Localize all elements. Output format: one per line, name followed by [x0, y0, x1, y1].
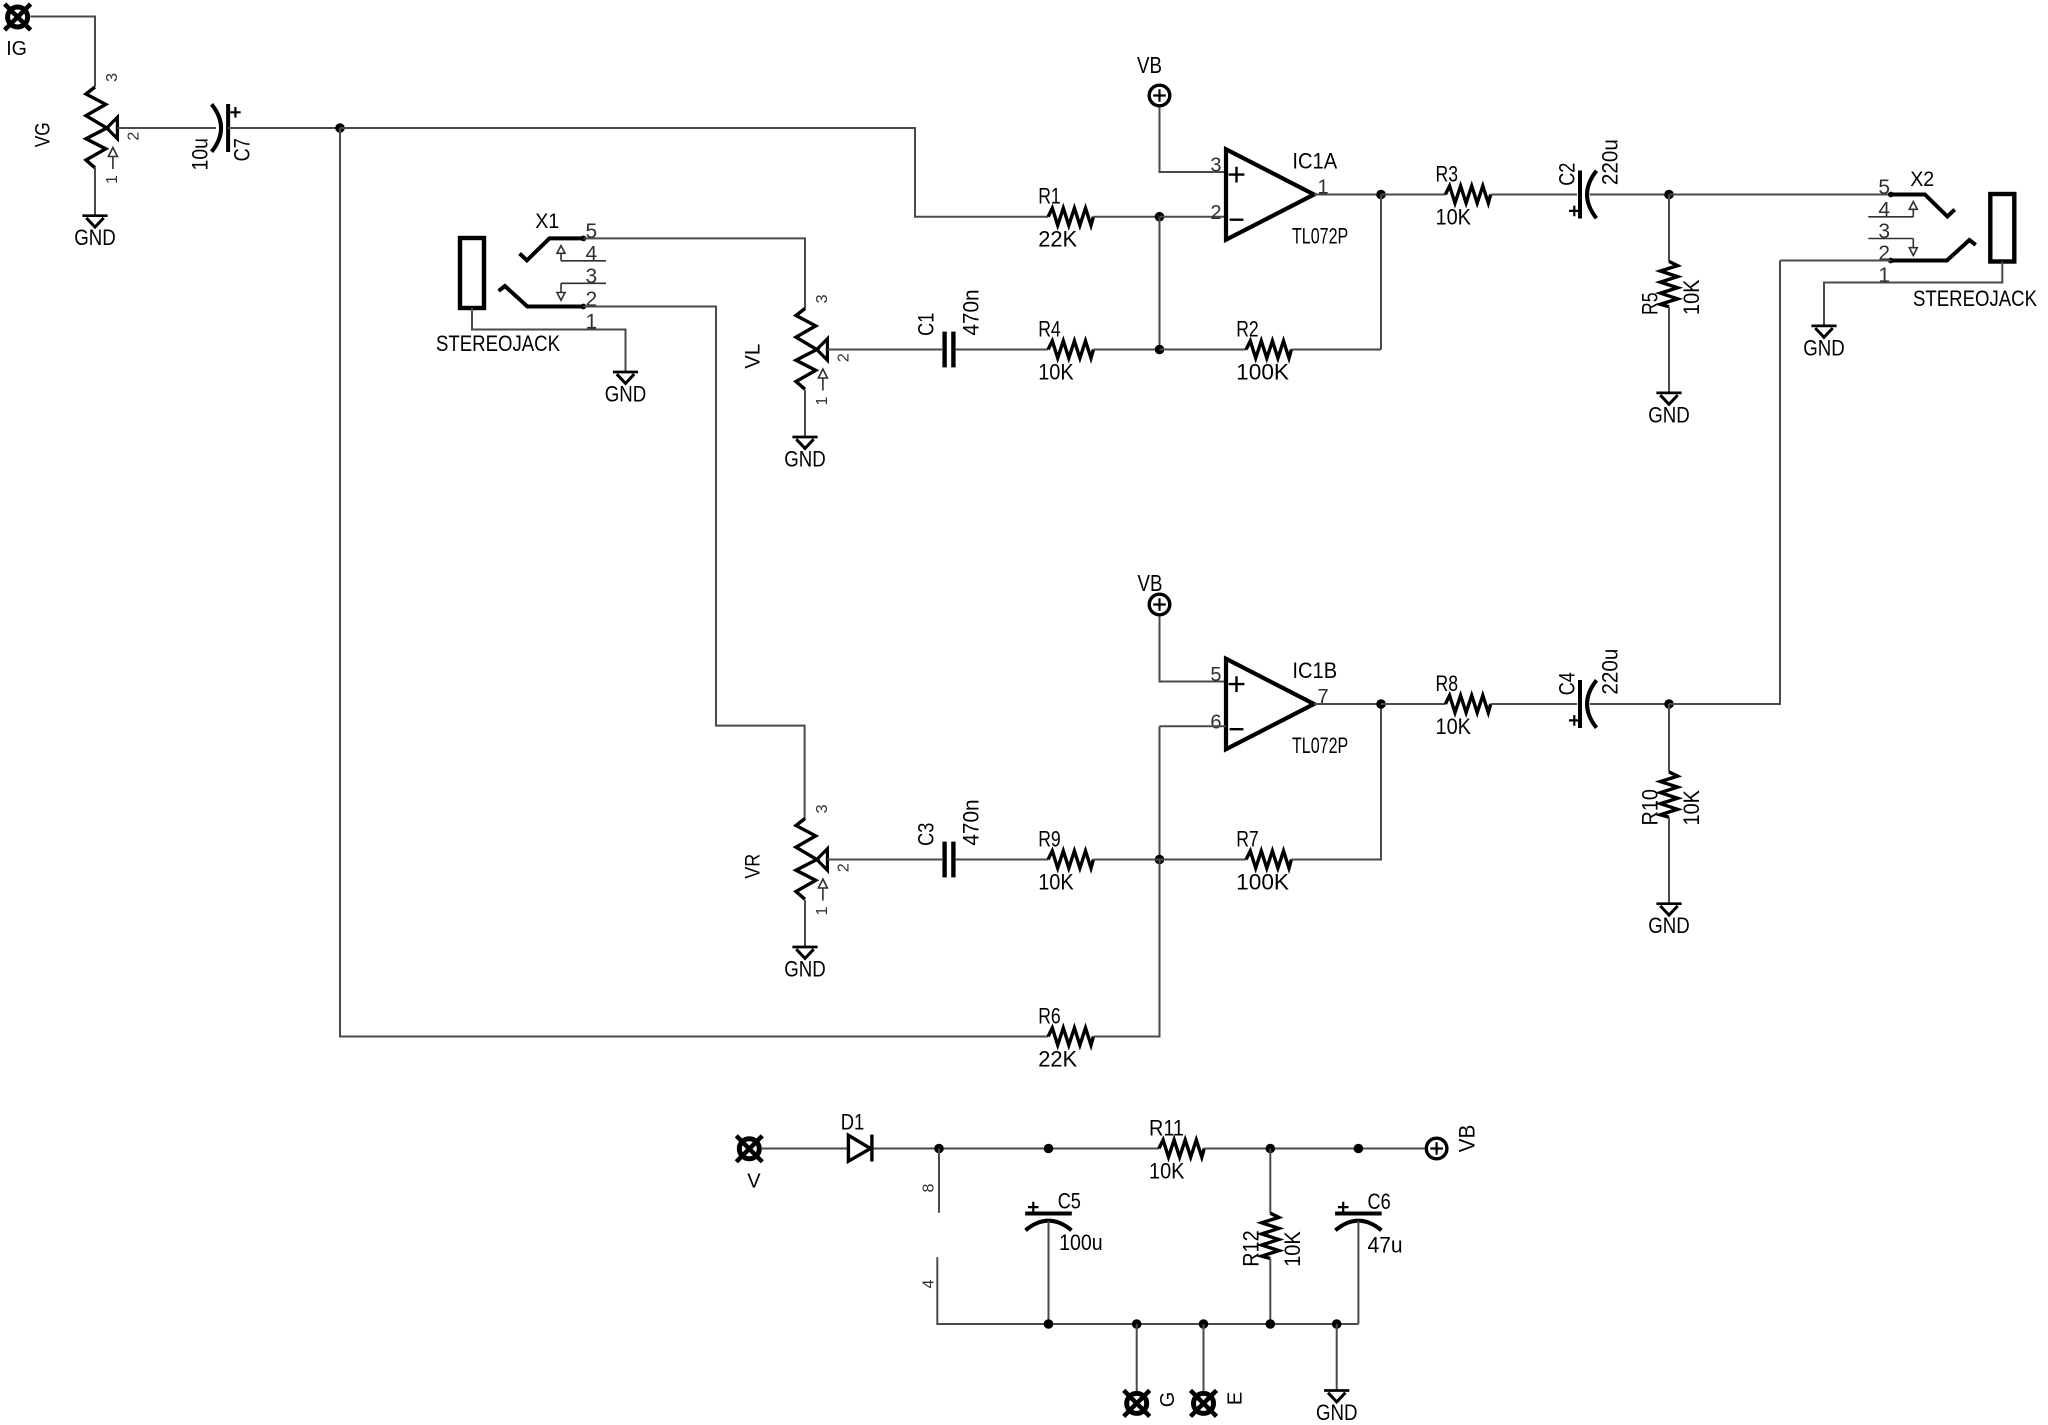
wire V to D1 — [762, 1148, 848, 1150]
svg-text:4: 4 — [1878, 198, 1890, 221]
junction output node B — [1664, 699, 1674, 709]
svg-text:C4: C4 — [1554, 672, 1579, 695]
wire VL wiper to C1 — [827, 349, 942, 351]
potentiometer VR — [796, 819, 827, 901]
svg-text:G: G — [1157, 1392, 1179, 1408]
svg-text:C2: C2 — [1554, 163, 1579, 186]
svg-text:3: 3 — [1878, 220, 1890, 243]
svg-text:470n: 470n — [958, 289, 983, 335]
junction node R4/R2 — [1155, 345, 1165, 355]
svg-text:R6: R6 — [1038, 1004, 1061, 1029]
wire C5 to ground rail — [1048, 1221, 1050, 1324]
svg-text:220u: 220u — [1597, 139, 1622, 185]
svg-text:R1: R1 — [1038, 184, 1061, 209]
svg-text:470n: 470n — [958, 799, 983, 845]
junction output node A — [1664, 190, 1674, 200]
wire VG pin 1 to GND — [94, 168, 96, 216]
resistor R10 — [1660, 772, 1677, 817]
svg-text:R2: R2 — [1236, 317, 1259, 342]
capacitor C1 — [945, 332, 954, 368]
ground GND under X1 — [605, 372, 647, 406]
wire G drop wire — [1136, 1324, 1138, 1392]
wire R12 top wire — [1269, 1149, 1271, 1214]
wire R8 to C4 — [1491, 703, 1577, 705]
svg-text:STEREOJACK: STEREOJACK — [436, 331, 560, 356]
wire R9 to summing node B — [1093, 859, 1159, 861]
svg-text:100K: 100K — [1236, 360, 1289, 385]
svg-text:10K: 10K — [1679, 279, 1704, 315]
terminal V — [736, 1136, 762, 1162]
svg-text:3: 3 — [1210, 154, 1221, 176]
capacitor C4 (polarized) — [1569, 680, 1597, 728]
svg-text:3: 3 — [586, 265, 598, 288]
junction node VB / R12 top — [1266, 1144, 1276, 1154]
svg-text:R8: R8 — [1436, 671, 1459, 696]
junction rail junction E — [1199, 1319, 1209, 1329]
wire R3 to C2 — [1491, 194, 1577, 196]
capacitor C7 (polarized) — [212, 104, 241, 152]
wire summing node A to IC1A pin 2 — [1160, 216, 1227, 218]
svg-text:22K: 22K — [1038, 1047, 1077, 1072]
wire C2 to output node A — [1590, 194, 1669, 196]
wire summing node B vertical — [1159, 726, 1161, 859]
capacitor C3 — [945, 842, 954, 878]
capacitor C5 (polarized) — [1025, 1202, 1072, 1231]
svg-text:IC1B: IC1B — [1292, 658, 1337, 683]
svg-text:220u: 220u — [1597, 649, 1622, 695]
svg-text:3: 3 — [104, 73, 121, 82]
supply terminal VB (IC1B supply) — [1149, 594, 1170, 615]
op-amp IC1A TL072P — [1226, 149, 1314, 239]
ground GND under R10 — [1648, 904, 1690, 938]
svg-text:R4: R4 — [1038, 317, 1061, 342]
ground GND under R5 — [1648, 393, 1690, 427]
wire node B to R10 — [1668, 704, 1670, 772]
wire IC1B output — [1314, 703, 1381, 705]
wire D1 to R11 — [874, 1148, 1159, 1150]
wire R7 to feedback B — [1291, 704, 1381, 860]
svg-text:C7: C7 — [230, 138, 255, 161]
wire output node B to X2 pin 2 riser — [1669, 261, 1780, 705]
wire R6 to summing node B — [1093, 860, 1159, 1037]
svg-text:4: 4 — [920, 1279, 937, 1288]
svg-text:E: E — [1224, 1392, 1246, 1405]
wire IC1 pin 8 stub — [938, 1149, 940, 1213]
svg-text:C1: C1 — [914, 313, 939, 336]
wire VB to IC1B pin 5 — [1160, 616, 1227, 681]
svg-text:10K: 10K — [1038, 360, 1074, 385]
svg-text:1: 1 — [814, 396, 831, 405]
resistor R5 — [1660, 261, 1677, 306]
svg-text:R9: R9 — [1038, 827, 1061, 852]
capacitor C6 (polarized) — [1335, 1202, 1382, 1231]
wire C7 to input node — [228, 127, 340, 129]
junction rail junction R12 — [1266, 1319, 1276, 1329]
ground GND under X2 — [1803, 326, 1845, 360]
resistor R8 — [1445, 695, 1490, 712]
svg-text:10u: 10u — [187, 138, 212, 170]
wire output node A to X2 pin 5 — [1669, 194, 1891, 196]
svg-text:GND: GND — [1648, 913, 1690, 938]
connector X2 STEREOJACK — [1868, 192, 2014, 264]
svg-text:V: V — [747, 1170, 761, 1192]
ground GND (power section) — [1316, 1391, 1358, 1425]
svg-text:TL072P: TL072P — [1292, 733, 1348, 758]
svg-text:10K: 10K — [1280, 1231, 1305, 1267]
wire X1 pin 5 to VL — [583, 238, 805, 309]
svg-text:TL072P: TL072P — [1292, 224, 1348, 249]
connector X1 STEREOJACK — [460, 236, 606, 310]
junction rail junction G — [1132, 1319, 1142, 1329]
wire R5 to GND — [1668, 307, 1670, 393]
svg-text:X2: X2 — [1910, 168, 1934, 191]
terminal IG — [5, 4, 31, 30]
wire node to R2 — [1160, 349, 1247, 351]
svg-text:5: 5 — [1878, 176, 1890, 199]
junction input node — [335, 123, 345, 133]
svg-text:2: 2 — [126, 132, 143, 141]
svg-text:100u: 100u — [1059, 1230, 1103, 1255]
junction rail junction GND — [1332, 1319, 1342, 1329]
junction node C5 top — [1044, 1144, 1054, 1154]
svg-text:10K: 10K — [1436, 714, 1472, 739]
ground GND under VR — [784, 947, 826, 981]
resistor R7 — [1246, 851, 1291, 868]
wire X1 pin 2 to VR — [583, 307, 804, 819]
wire R4 to summing node A — [1093, 349, 1159, 351]
wire E drop wire — [1203, 1324, 1205, 1392]
wire IC1 pin 4 stub and ground rail — [937, 1257, 1358, 1324]
svg-text:GND: GND — [74, 225, 116, 250]
svg-text:IG: IG — [6, 38, 27, 60]
terminal G — [1124, 1390, 1150, 1416]
svg-text:10K: 10K — [1436, 205, 1472, 230]
svg-text:1: 1 — [1878, 264, 1890, 287]
svg-text:VB: VB — [1137, 52, 1162, 78]
svg-text:4: 4 — [586, 242, 598, 265]
svg-text:VB: VB — [1455, 1125, 1480, 1153]
wire X1 pin 1 to GND — [472, 308, 626, 372]
svg-text:C3: C3 — [914, 823, 939, 846]
junction summing node A — [1155, 212, 1165, 222]
svg-text:R3: R3 — [1436, 162, 1459, 187]
svg-text:2: 2 — [1210, 202, 1221, 224]
junction node V+ / pin 8 — [934, 1144, 944, 1154]
svg-text:GND: GND — [1803, 335, 1845, 360]
svg-text:C6: C6 — [1368, 1189, 1391, 1214]
potentiometer VG — [86, 87, 117, 169]
junction rail junction C5 — [1044, 1319, 1054, 1329]
wire C3 to R9 — [956, 859, 1048, 861]
wire IG to VG pin 3 — [31, 17, 96, 87]
wire riser to X2 pin 2 — [1780, 260, 1891, 262]
wire input node to R1 — [340, 128, 1048, 217]
wire summing node A vertical — [1159, 217, 1161, 350]
supply terminal VB (IC1A supply) — [1149, 85, 1170, 106]
svg-text:100K: 100K — [1236, 870, 1289, 895]
wire rail to GND — [1336, 1324, 1338, 1391]
wire IC1B pin 6 wire — [1160, 725, 1227, 727]
svg-text:GND: GND — [605, 381, 647, 406]
wire IC1B out to R8 — [1381, 703, 1445, 705]
svg-text:3: 3 — [814, 804, 831, 813]
svg-text:10K: 10K — [1679, 790, 1704, 826]
svg-text:10K: 10K — [1149, 1159, 1185, 1184]
svg-text:X1: X1 — [535, 210, 559, 233]
svg-text:STEREOJACK: STEREOJACK — [1913, 286, 2037, 311]
resistor R11 — [1159, 1140, 1204, 1157]
svg-text:R12: R12 — [1239, 1230, 1264, 1267]
wire VB to IC1A pin 3 — [1160, 107, 1227, 172]
svg-text:5: 5 — [1210, 664, 1221, 686]
svg-text:VB: VB — [1138, 570, 1163, 596]
wire VG wiper to C7 — [117, 127, 216, 129]
svg-text:D1: D1 — [841, 1109, 865, 1134]
junction summing node B — [1155, 855, 1165, 865]
wire C6 to ground rail — [1357, 1221, 1359, 1324]
svg-text:VL: VL — [742, 344, 765, 369]
ground GND under VL — [784, 437, 826, 471]
svg-text:22K: 22K — [1038, 227, 1077, 252]
svg-text:GND: GND — [784, 956, 826, 981]
svg-text:GND: GND — [784, 446, 826, 471]
wire VR pin 1 to GND — [804, 900, 806, 947]
svg-text:R7: R7 — [1236, 827, 1259, 852]
wire VR wiper to C3 — [827, 859, 942, 861]
wire VL pin 1 to GND — [804, 390, 806, 437]
svg-text:10K: 10K — [1038, 870, 1074, 895]
wire node A to R5 — [1668, 195, 1670, 262]
svg-text:R10: R10 — [1637, 789, 1662, 826]
junction node IC1B out — [1376, 699, 1386, 709]
wire IC1A output — [1314, 194, 1381, 196]
svg-text:GND: GND — [1316, 1400, 1358, 1425]
supply terminal VB (output) — [1426, 1138, 1447, 1159]
capacitor C2 (polarized) — [1569, 171, 1597, 219]
svg-text:2: 2 — [836, 353, 853, 362]
junction node IC1A out — [1376, 190, 1386, 200]
svg-text:VG: VG — [32, 122, 55, 147]
svg-text:R5: R5 — [1637, 293, 1662, 316]
resistor R12 — [1262, 1213, 1279, 1258]
svg-text:C5: C5 — [1058, 1188, 1081, 1213]
svg-text:GND: GND — [1648, 402, 1690, 427]
svg-text:2: 2 — [836, 863, 853, 872]
svg-text:47u: 47u — [1368, 1233, 1403, 1258]
svg-text:6: 6 — [1210, 712, 1221, 734]
resistor R4 — [1048, 341, 1093, 358]
svg-text:1: 1 — [814, 906, 831, 915]
wire feedback A vertical — [1380, 195, 1382, 350]
svg-text:5: 5 — [586, 220, 598, 243]
wire input node to R6 — [340, 128, 1048, 1037]
junction node C6 top — [1354, 1144, 1364, 1154]
diode D1 — [848, 1135, 872, 1162]
svg-text:2: 2 — [1878, 242, 1890, 265]
wire R2 to feedback A — [1291, 349, 1381, 351]
op-amp IC1B TL072P — [1226, 659, 1314, 749]
resistor R1 — [1048, 208, 1093, 225]
svg-text:IC1A: IC1A — [1292, 149, 1337, 174]
svg-text:3: 3 — [814, 294, 831, 303]
potentiometer VL — [796, 309, 827, 391]
resistor R6 — [1048, 1028, 1093, 1045]
wire X2 pin 1 to GND — [1824, 262, 2002, 326]
terminal E — [1191, 1390, 1217, 1416]
wire node to R7 — [1160, 859, 1247, 861]
wire R11 to VB terminal — [1204, 1148, 1425, 1150]
svg-text:R11: R11 — [1149, 1116, 1184, 1141]
wire C4 to output node B — [1590, 703, 1669, 705]
resistor R3 — [1445, 186, 1490, 203]
wire R12 bottom wire — [1269, 1259, 1271, 1324]
ground GND under VG — [74, 216, 116, 250]
svg-text:1: 1 — [104, 175, 121, 184]
wire IC1A out to R3 — [1381, 194, 1445, 196]
resistor R2 — [1246, 341, 1291, 358]
svg-text:8: 8 — [920, 1183, 937, 1192]
wire R1 to summing node A — [1093, 216, 1159, 218]
wire R10 to GND — [1668, 817, 1670, 904]
resistor R9 — [1048, 851, 1093, 868]
wire C1 to R4 — [956, 349, 1048, 351]
svg-text:VR: VR — [742, 854, 765, 879]
svg-text:2: 2 — [586, 288, 598, 311]
